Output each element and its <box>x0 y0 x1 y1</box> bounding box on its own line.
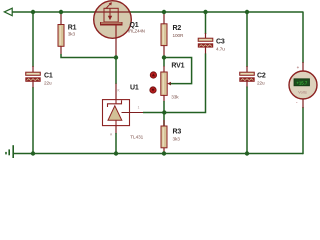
wire U1 anode to rail <box>115 126 117 134</box>
wire top rail <box>12 11 304 13</box>
svg-text:100R: 100R <box>173 33 185 38</box>
wire R1 bottom to gate node <box>61 54 116 58</box>
wire RV1 bottom to node <box>163 101 165 113</box>
node junction C1/bottom rail <box>31 151 35 155</box>
svg-text:R2: R2 <box>173 25 182 32</box>
capacitor C2 <box>240 66 266 88</box>
voltmeter <box>289 62 317 108</box>
svg-text:3k3: 3k3 <box>173 136 181 141</box>
svg-text:C3: C3 <box>216 39 225 46</box>
op-amp U1 (TL431 shunt regulator) <box>103 84 145 140</box>
wire right column from rail corner down to voltmeter + <box>302 12 304 63</box>
wire gate pin down to node <box>115 39 117 58</box>
svg-text:IRLZ44N: IRLZ44N <box>128 28 145 33</box>
wire C1 branch top <box>32 12 34 67</box>
node junction C2/top rail <box>245 10 249 14</box>
potentiometer RV1 <box>150 62 185 101</box>
svg-text:RV1: RV1 <box>171 62 184 69</box>
node junction C1/top rail <box>31 10 35 14</box>
wire right column voltmeter - down to rail <box>302 107 304 154</box>
svg-text:4.7u: 4.7u <box>216 46 225 51</box>
svg-text:R3: R3 <box>173 129 182 136</box>
node junction divider <box>162 110 166 114</box>
wire junction down to RV1 <box>163 58 165 67</box>
terminal input arrow <box>4 8 12 16</box>
ground <box>6 145 13 158</box>
svg-text:1: 1 <box>138 106 140 110</box>
svg-text:22u: 22u <box>44 80 52 85</box>
wire bottom rail <box>13 153 303 155</box>
wire RV1 wiper loop <box>165 58 192 84</box>
resistor R2 <box>161 12 184 58</box>
svg-text:3k3: 3k3 <box>68 31 76 36</box>
svg-text:+: + <box>297 65 300 70</box>
wire C1 branch bottom <box>32 87 34 154</box>
wire C2 branch top <box>246 12 248 67</box>
transistor Q1 <box>94 1 145 39</box>
svg-text:22u: 22u <box>257 80 265 85</box>
wire U1 ref to node <box>143 112 164 114</box>
resistor R1 <box>58 12 77 55</box>
node junction R2/top rail <box>162 10 166 14</box>
node junction R1/gate <box>114 55 118 59</box>
svg-text:R1: R1 <box>68 24 77 31</box>
capacitor C3 <box>198 33 225 54</box>
wire gate node down <box>115 58 117 85</box>
svg-text:+15.7: +15.7 <box>296 81 307 86</box>
wire C3 bottom to node <box>164 54 206 113</box>
svg-text:U1: U1 <box>130 85 139 92</box>
svg-text:33k: 33k <box>171 94 179 99</box>
resistor R3 <box>161 113 181 154</box>
node junction U1 anode/bottom rail <box>114 151 118 155</box>
node junction C3/top rail <box>203 10 207 14</box>
node junction R2/RV1/wiper <box>162 55 166 59</box>
svg-text:C1: C1 <box>44 73 53 80</box>
svg-text:TL431: TL431 <box>130 135 143 140</box>
node junction R3/bottom rail <box>162 151 166 155</box>
wire C2 bottom <box>246 87 248 154</box>
svg-text:Volts: Volts <box>298 90 307 95</box>
svg-text:C2: C2 <box>257 73 266 80</box>
node junction C2/bottom rail <box>245 151 249 155</box>
node junction R1/top rail <box>59 10 63 14</box>
capacitor C1 <box>26 66 53 88</box>
wire C3 branch top <box>205 12 207 34</box>
